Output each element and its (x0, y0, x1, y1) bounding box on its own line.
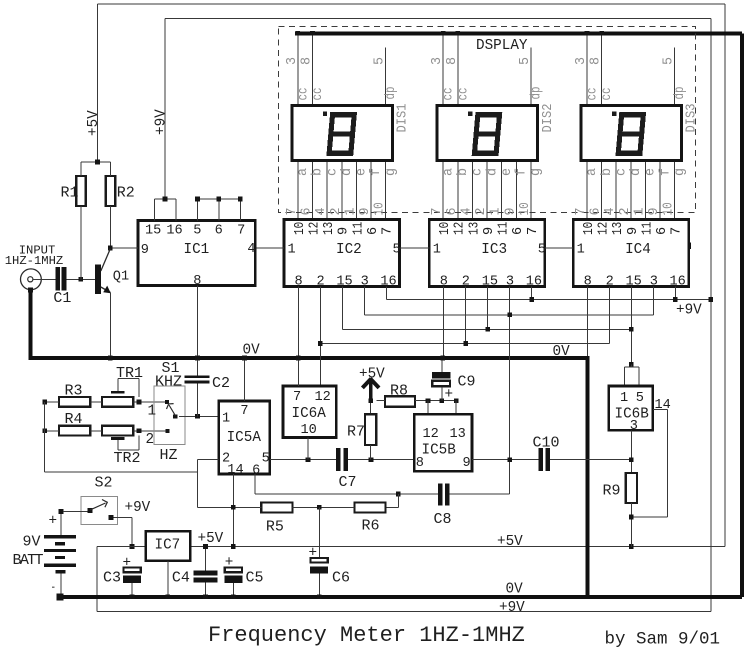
capacitor C7 (336, 448, 340, 471)
wire +5V to R1 R2 tops (81, 161, 110, 163)
svg-text:6: 6 (589, 207, 604, 215)
svg-text:dp: dp (529, 87, 544, 100)
junction R8 left (368, 398, 373, 403)
svg-text:9: 9 (626, 227, 641, 235)
wire C4 (205, 547, 207, 571)
wire R8 left (376, 400, 385, 402)
svg-text:1: 1 (577, 243, 585, 258)
svg-text:5: 5 (193, 224, 201, 239)
wire C2 top to 0V bus (197, 360, 199, 375)
wire R5 row (198, 506, 262, 508)
switch S2 (58, 496, 117, 524)
svg-text:14: 14 (655, 398, 671, 413)
wire IC1 pin9 to Q1 collector (110, 247, 138, 249)
wire battery minus to 0V bus (60, 573, 62, 594)
wire IC6B pin3 to R9 (630, 430, 632, 473)
svg-text:7: 7 (293, 390, 301, 405)
svg-text:5: 5 (373, 57, 388, 65)
wire IC5A pin7 to 0V bus (244, 360, 246, 401)
svg-text:2: 2 (618, 207, 633, 215)
DIS3 pin 5 dp wire (674, 48, 676, 105)
svg-text:DIS3: DIS3 (685, 104, 700, 133)
svg-text:cc: cc (586, 88, 601, 101)
svg-text:7: 7 (381, 227, 396, 235)
svg-text:0V: 0V (553, 344, 571, 360)
wire IC5A pin6 down right (254, 474, 256, 494)
connector BNC input (21, 269, 42, 290)
wire R8 right to IC5B pins (415, 400, 456, 402)
svg-text:9: 9 (463, 456, 471, 471)
svg-text:6: 6 (252, 464, 260, 479)
capacitor C10 (539, 448, 543, 471)
svg-text:0V: 0V (243, 343, 261, 359)
svg-text:11: 11 (497, 222, 512, 235)
trimmer TR2 (102, 426, 133, 436)
wire S2 right to IC7 node (114, 517, 133, 519)
wire IC2 pin8 to 0V bus (297, 287, 299, 357)
gate IC6A (283, 386, 336, 438)
svg-text:IC5A: IC5A (227, 430, 262, 446)
svg-text:c: c (471, 168, 486, 176)
wire IC5B pin12 stub (427, 401, 429, 415)
svg-text:a: a (441, 168, 456, 176)
wire IC3 pin5 to IC4 pin1 (545, 247, 573, 249)
svg-text:7: 7 (526, 227, 541, 235)
svg-text:cc: cc (442, 88, 457, 101)
wire IC3 pin16 drop (531, 287, 533, 300)
wire IC1 pins 15 16 tie to +9V (154, 199, 156, 221)
svg-text:+: + (445, 387, 454, 403)
svg-text:R8: R8 (390, 383, 408, 400)
DIS1 segment wires a-g to IC2 (285, 162, 399, 219)
svg-text:6: 6 (300, 207, 315, 215)
wire IC2 pin5 to IC3 pin1 (400, 247, 430, 249)
svg-text:13: 13 (611, 222, 626, 235)
svg-text:+5V: +5V (86, 110, 102, 136)
wire +9V drop from S2 node (96, 547, 98, 612)
svg-text:g: g (673, 168, 688, 176)
svg-text:e: e (500, 168, 515, 176)
svg-text:IC3: IC3 (481, 242, 507, 258)
BNC shield terminal (28, 288, 33, 293)
wire 0V thick right rail (740, 33, 744, 597)
resistor R6 (355, 502, 386, 512)
svg-text:9: 9 (482, 227, 497, 235)
svg-text:9: 9 (503, 207, 518, 215)
junction 0V bus grounds (108, 356, 113, 361)
wire 0V thick BNC riser (29, 292, 33, 359)
wire C2 bottom to pin1 wire (197, 383, 199, 416)
svg-text:10: 10 (373, 202, 388, 215)
wire C1 to Q1 base (66, 278, 95, 280)
junction IC4 pin15 riser (629, 327, 634, 332)
wire R1 bottom (80, 206, 82, 279)
svg-text:7: 7 (237, 224, 245, 239)
svg-text:12: 12 (597, 222, 612, 235)
svg-text:12: 12 (453, 222, 468, 235)
resistor R9 (626, 473, 637, 503)
wire IC5B pin13 stub (455, 401, 457, 415)
svg-text:6: 6 (366, 227, 381, 235)
wire +5V bottom rail horizontal (190, 546, 725, 548)
gate IC6B (609, 386, 653, 434)
svg-text:8: 8 (300, 57, 315, 65)
svg-text:cc: cc (296, 88, 311, 101)
svg-text:C9: C9 (458, 374, 476, 391)
svg-text:9: 9 (337, 227, 352, 235)
resistor R4 (59, 426, 90, 436)
junction +9V at IC1 (163, 197, 168, 202)
op-amp IC5A (219, 401, 270, 479)
svg-text:5: 5 (662, 57, 677, 65)
wire C6 bottom (318, 574, 320, 595)
svg-text:IC5B: IC5B (422, 443, 457, 459)
svg-text:a: a (296, 168, 311, 176)
svg-text:16: 16 (380, 275, 396, 290)
svg-text:0V: 0V (506, 582, 524, 598)
wire IC6A pin10 down (307, 438, 309, 460)
svg-text:C7: C7 (339, 474, 357, 491)
svg-text:1: 1 (288, 243, 296, 258)
svg-text:8: 8 (445, 57, 460, 65)
junction Q1 collector node (108, 246, 113, 251)
svg-text:7: 7 (430, 207, 445, 215)
svg-text:c: c (614, 168, 629, 176)
svg-text:b: b (456, 168, 471, 176)
svg-text:1: 1 (148, 404, 157, 420)
svg-text:Q1: Q1 (113, 270, 129, 285)
DIS1 pin 3 cc wire (297, 35, 299, 104)
svg-text:d: d (485, 168, 500, 176)
svg-text:4: 4 (314, 207, 329, 215)
svg-text:16: 16 (526, 275, 542, 290)
junction R5 row (231, 505, 236, 510)
svg-text:7: 7 (240, 404, 248, 419)
svg-text:Frequency Meter 1HZ-1MHZ: Frequency Meter 1HZ-1MHZ (208, 623, 525, 648)
svg-text:IC6B: IC6B (615, 407, 650, 423)
DIS2 pin 3 cc wire (442, 35, 444, 104)
junction R3 row (42, 400, 47, 405)
DIS3 pin 8 cc wire (601, 35, 603, 104)
wire Q1 emitter to 0V bus (109, 293, 111, 357)
junction C10 row at R9 (629, 457, 634, 462)
svg-text:BATT: BATT (13, 552, 44, 569)
svg-text:7: 7 (285, 207, 300, 215)
wire S1 common to IC5A pin1 (179, 415, 219, 417)
svg-text:+5V: +5V (198, 531, 224, 547)
wire IC5B pin9 row to C10 (472, 459, 539, 461)
svg-text:5: 5 (636, 391, 644, 406)
wire IC1 pin4 to IC2 pin1 (255, 247, 284, 249)
svg-text:4: 4 (459, 207, 474, 215)
junction DIS3 cc pins on 0V bus (585, 31, 590, 36)
capacitor C9 electrolytic (432, 372, 451, 378)
svg-text:+5V: +5V (497, 534, 523, 550)
svg-text:b: b (600, 168, 615, 176)
svg-text:f: f (515, 168, 530, 176)
counter-timebase IC1 (138, 221, 256, 290)
wire +5V right rail vertical (724, 4, 726, 547)
svg-text:14: 14 (227, 463, 243, 478)
svg-text:cc: cc (456, 88, 471, 101)
counter IC4 (573, 220, 689, 290)
DIS2 pin 8 cc wire (457, 35, 459, 104)
wire pins16 bus (+9V) (386, 299, 711, 301)
wire C3 (131, 583, 133, 595)
svg-text:5: 5 (538, 243, 546, 258)
junction pins15 bus (485, 327, 490, 332)
wire IC1 pin8 down to 0V bus (197, 286, 199, 357)
svg-text:4: 4 (603, 207, 618, 215)
svg-text:R7: R7 (347, 424, 365, 441)
capacitor C1 (55, 267, 60, 290)
svg-text:5: 5 (262, 452, 270, 467)
battery ground terminal (56, 593, 63, 600)
switch S1 (154, 386, 185, 445)
DIS1 pin 5 dp wire (385, 48, 387, 105)
wire IC6B pins 1 5 tie (630, 364, 632, 367)
wire BNC to C1 (33, 278, 55, 280)
junction IC6A pin10 and R7 on pin5 row (306, 457, 311, 462)
svg-text:C10: C10 (533, 435, 560, 452)
svg-text:dp: dp (384, 87, 399, 100)
wire R6 riser (397, 494, 399, 507)
wire IC5A pin5 row to IC5B pin8 (270, 459, 336, 461)
svg-text:1HZ-1MHZ: 1HZ-1MHZ (5, 254, 64, 268)
svg-text:5: 5 (518, 57, 533, 65)
junction pins2 bus (318, 341, 323, 346)
svg-text:IC1: IC1 (184, 242, 210, 258)
svg-text:6: 6 (655, 227, 670, 235)
svg-text:10: 10 (518, 202, 533, 215)
junction IC5B pin12 pin13 C9 (426, 398, 431, 403)
wire +5V top rail horizontal (98, 3, 726, 5)
svg-text:15: 15 (626, 275, 642, 290)
svg-text:16: 16 (166, 224, 182, 239)
wire IC5A pin2 left and down (198, 459, 219, 461)
svg-text:6: 6 (445, 207, 460, 215)
svg-text:R5: R5 (266, 519, 284, 536)
wire +9V right rail vertical (710, 19, 712, 612)
svg-text:cc: cc (600, 88, 615, 101)
display DIS1 7-segment (292, 106, 393, 161)
wire R7 bottom (370, 445, 372, 460)
wire R9 bottom to +5V rail (630, 503, 632, 547)
svg-text:1: 1 (620, 391, 628, 406)
wire IC2 pin2 down to IC6A pin12 (crosses buses) (319, 287, 321, 387)
svg-text:C4: C4 (172, 570, 190, 587)
wire IC4 pin15 drop long riser to IC6B (630, 287, 632, 365)
wire IC3 pin15 drop (487, 287, 489, 330)
svg-text:13: 13 (467, 222, 482, 235)
junction R4 row (42, 429, 47, 434)
wire pins2 bus (320, 343, 609, 345)
wire IC4 pin3 drop (652, 287, 654, 315)
svg-text:7: 7 (670, 227, 685, 235)
wire IC3 pin2 drop (465, 287, 467, 344)
svg-text:10: 10 (301, 423, 317, 438)
svg-text:10: 10 (662, 202, 677, 215)
svg-text:dp: dp (673, 87, 688, 100)
junction pins16 bus (529, 297, 534, 302)
junction R9 pin14 node (629, 515, 634, 520)
svg-text:R2: R2 (117, 185, 135, 202)
svg-text:C1: C1 (53, 290, 71, 307)
wire S2 left to battery (63, 511, 88, 513)
svg-text:d: d (340, 168, 355, 176)
svg-text:3: 3 (285, 57, 300, 65)
svg-text:6: 6 (215, 224, 223, 239)
svg-text:+9V: +9V (125, 500, 151, 516)
wire IC2 pin3 drop (363, 287, 365, 315)
svg-text:R1: R1 (61, 185, 79, 202)
wire +9V bottom rail horizontal (97, 611, 711, 613)
svg-text:C8: C8 (434, 511, 452, 528)
svg-text:d: d (629, 168, 644, 176)
svg-text:2: 2 (329, 207, 344, 215)
wire IC4 pin16 drop (674, 287, 676, 300)
svg-text:4: 4 (247, 242, 255, 257)
svg-text:2: 2 (474, 207, 489, 215)
resistor R1 (76, 176, 86, 206)
junction R1 bottom at base wire (79, 277, 84, 282)
resistor R2 (106, 176, 116, 206)
wire 0V thick mid vertical drop (586, 358, 590, 597)
battery BT1 9V (44, 514, 76, 588)
resistor R3 (59, 397, 90, 407)
wire IC3 pin3 drop long riser to C8 (509, 287, 511, 495)
svg-text:10: 10 (293, 222, 308, 235)
svg-text:8: 8 (589, 57, 604, 65)
svg-text:C3: C3 (103, 570, 121, 587)
wire +9V top rail horizontal (165, 18, 711, 20)
svg-text:2: 2 (146, 432, 155, 448)
svg-text:1: 1 (222, 411, 230, 426)
svg-text:1: 1 (633, 207, 648, 215)
transistor Q1 (95, 249, 129, 295)
svg-text:HZ: HZ (160, 447, 178, 464)
wire 0V thick top bus (295, 31, 742, 35)
wire R2 bottom to collector node (109, 206, 111, 248)
svg-text:15: 15 (482, 275, 498, 290)
svg-text:9: 9 (647, 207, 662, 215)
wire IC5A pin14 riser to +5V (232, 474, 234, 547)
counter IC2 (284, 220, 401, 290)
wire +9V left drop to IC1 (164, 19, 166, 200)
junction C8 riser at pin9 row (507, 457, 512, 462)
wire IC1 pins 5 6 7 tie (197, 199, 199, 221)
svg-text:IC7: IC7 (155, 538, 181, 554)
wire pins15 bus (342, 328, 631, 330)
svg-text:IC2: IC2 (336, 242, 362, 258)
resistor R7 (365, 414, 376, 445)
DIS3 pin 3 cc wire (586, 35, 588, 104)
DIS2 segment wires a-g to IC3 (430, 162, 544, 219)
capacitor C8 (438, 484, 442, 506)
svg-text:+9V: +9V (676, 303, 702, 319)
wire IC4 pin8 to 0V bus (586, 287, 588, 357)
IC4 pin5 stub (689, 242, 691, 248)
svg-text:13: 13 (322, 222, 337, 235)
svg-text:15: 15 (145, 224, 161, 239)
junction bottom 0V bus (130, 595, 135, 600)
svg-text:g: g (384, 168, 399, 176)
junction R6 riser on pin6 wire (396, 492, 401, 497)
wire TR1 wiper (117, 379, 119, 391)
trimmer TR1 (102, 397, 133, 407)
wire R3 row (45, 401, 59, 403)
svg-text:TR2: TR2 (114, 450, 141, 467)
svg-text:3: 3 (574, 57, 589, 65)
junction DIS2 cc pins on 0V bus (441, 31, 446, 36)
svg-text:5: 5 (393, 243, 401, 258)
svg-text:+: + (49, 514, 58, 530)
svg-text:7: 7 (574, 207, 589, 215)
svg-text:9: 9 (141, 243, 149, 258)
wire C5 (232, 583, 234, 595)
regulator IC7 (146, 531, 190, 561)
wire C9 bottom (441, 387, 443, 401)
wire 0V thick middle bus (29, 356, 590, 360)
svg-text:R9: R9 (603, 483, 621, 500)
capacitor C4 (194, 571, 218, 576)
svg-text:1: 1 (489, 207, 504, 215)
svg-text:b: b (311, 168, 326, 176)
svg-text:12: 12 (315, 390, 331, 405)
svg-text:6: 6 (511, 227, 526, 235)
svg-text:R4: R4 (65, 411, 83, 428)
DIS2 pin 5 dp wire (530, 48, 532, 105)
wire C9 top to 0V bus (441, 360, 443, 372)
svg-text:15: 15 (336, 275, 352, 290)
svg-text:11: 11 (351, 222, 366, 235)
junction C2 at pin1 wire (195, 414, 200, 419)
DIS3 segment wires a-g to IC4 (574, 162, 688, 219)
wire IC4 pin2 drop (608, 287, 610, 344)
svg-text:c: c (325, 168, 340, 176)
DIS1 pin 8 cc wire (312, 35, 314, 104)
wire R4 row (45, 430, 59, 432)
wire IC2 pin16 drop (385, 287, 387, 300)
junction DIS1 cc pins on 0V bus (296, 31, 301, 36)
svg-text:e: e (644, 168, 659, 176)
wire C8 right to IC3 pin3 riser (450, 493, 510, 495)
svg-text:12: 12 (307, 222, 322, 235)
wire pins3 bus (364, 314, 653, 316)
svg-text:+9V: +9V (499, 600, 525, 616)
svg-text:IC6A: IC6A (292, 406, 327, 422)
svg-text:+9V: +9V (153, 109, 169, 135)
op-amp IC5B (414, 414, 472, 471)
svg-text:g: g (529, 168, 544, 176)
display dashed enclosure DSPLAY (279, 27, 696, 213)
svg-text:R3: R3 (65, 383, 83, 400)
svg-text:DIS1: DIS1 (396, 104, 411, 133)
svg-text:10: 10 (582, 222, 597, 235)
wire C6 riser (318, 507, 320, 557)
svg-text:by Sam 9/01: by Sam 9/01 (605, 630, 721, 650)
svg-text:f: f (658, 168, 673, 176)
svg-text:DIS2: DIS2 (541, 104, 556, 133)
svg-text:C2: C2 (212, 375, 230, 392)
svg-text:3: 3 (430, 57, 445, 65)
wire TR2 wiper (117, 440, 119, 450)
wire +9V node to IC7 and left drop (97, 546, 146, 548)
svg-text:f: f (369, 168, 384, 176)
junction +5V R1 R2 (95, 160, 100, 165)
display DIS2 7-segment (437, 106, 537, 161)
wire IC7 ground pin (167, 561, 169, 595)
